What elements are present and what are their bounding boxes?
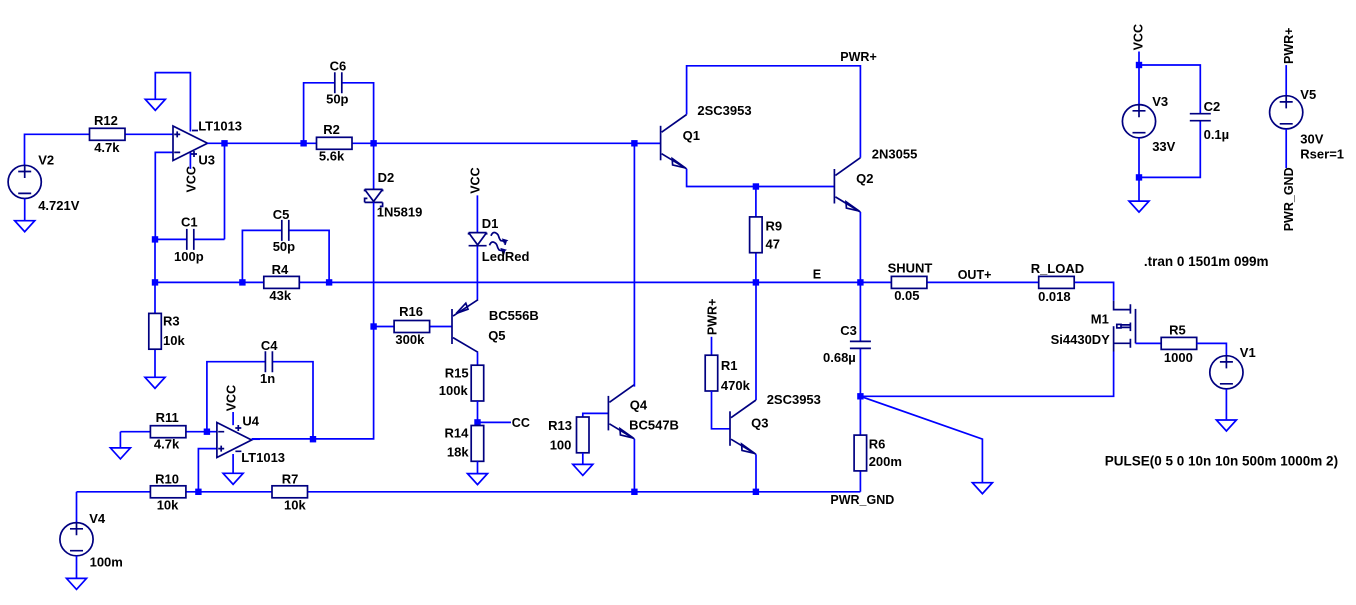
svg-text:18k: 18k [447, 445, 469, 460]
svg-text:R7: R7 [282, 472, 299, 487]
svg-text:PWR_GND: PWR_GND [1282, 167, 1296, 231]
svg-text:100p: 100p [174, 249, 204, 264]
resistor R13 [548, 417, 589, 453]
wire PWR+ to V5 [1285, 65, 1287, 96]
node C5 right junction [326, 279, 332, 285]
svg-text:D2: D2 [378, 170, 395, 185]
node R9 top junction [753, 183, 759, 189]
svg-text:100: 100 [550, 438, 572, 453]
svg-text:R16: R16 [399, 304, 423, 319]
svg-text:PWR+: PWR+ [705, 299, 719, 335]
resistor R5 [1161, 323, 1197, 366]
svg-text:C5: C5 [273, 207, 290, 222]
svg-text:SHUNT: SHUNT [888, 261, 933, 276]
voltage source V5 [1270, 87, 1344, 162]
node Q4 emitter junction [631, 489, 637, 495]
resistor SHUNT [888, 261, 933, 303]
svg-text:PWR_GND: PWR_GND [830, 493, 894, 507]
LED D1 LedRed [469, 216, 530, 264]
wire V3 to ground [1138, 138, 1140, 201]
wire V1 to ground [1225, 389, 1227, 420]
ground V4 [67, 578, 87, 589]
svg-text:R9: R9 [766, 219, 783, 234]
node Q3 emitter junction [753, 489, 759, 495]
svg-text:R_LOAD: R_LOAD [1031, 261, 1084, 276]
wire U4 V- pin to ground [232, 454, 234, 473]
wire Q4 collector to row A [633, 143, 635, 386]
wire V2 to R12 [25, 134, 90, 165]
wire R13 to ground [582, 453, 584, 465]
svg-text:30V: 30V [1300, 132, 1323, 147]
capacitor C5 [273, 207, 295, 254]
svg-text:4.721V: 4.721V [38, 198, 80, 213]
capacitor C1 [174, 214, 204, 263]
resistor R14 [445, 426, 484, 462]
svg-text:U3: U3 [198, 153, 215, 168]
node U4 -in junction [204, 429, 210, 435]
svg-text:V2: V2 [38, 153, 54, 168]
wire U4 output stub [252, 438, 260, 440]
ground R3 [145, 377, 165, 388]
svg-text:2N3055: 2N3055 [872, 146, 918, 161]
svg-text:Si4430DY: Si4430DY [1051, 332, 1111, 347]
node V3 bottom junction [1136, 174, 1142, 180]
svg-text:Q1: Q1 [683, 128, 700, 143]
svg-text:4.7k: 4.7k [94, 140, 120, 155]
svg-text:470k: 470k [721, 378, 751, 393]
wire U4 +in [198, 449, 217, 492]
svg-text:0.018: 0.018 [1038, 289, 1071, 304]
MOSFET M1 Si4430DY [1051, 301, 1136, 352]
svg-text:1n: 1n [260, 371, 275, 386]
wire R5 to V1 [1197, 343, 1227, 355]
svg-text:10k: 10k [284, 498, 306, 513]
svg-text:50p: 50p [326, 92, 348, 107]
svg-text:50p: 50p [273, 239, 295, 254]
ground output loop [972, 483, 992, 494]
wire U3 V+ pin to VCC [189, 152, 191, 169]
svg-text:0.05: 0.05 [894, 288, 919, 303]
svg-text:R14: R14 [445, 426, 470, 441]
wire VCC to D1 to Q5 emitter [476, 195, 478, 299]
wire Q3 collector to E row [755, 282, 757, 400]
wire Q3 emitter to PWR_GND row [755, 454, 757, 492]
svg-text:Q4: Q4 [630, 397, 648, 412]
svg-text:1N5819: 1N5819 [377, 205, 423, 220]
wire D2 to R16 node and U4 output row [252, 202, 374, 439]
node U4 out junction [310, 436, 316, 442]
capacitor C6 [326, 59, 348, 107]
svg-text:V3: V3 [1152, 94, 1168, 109]
svg-text:47: 47 [766, 237, 780, 252]
svg-text:R10: R10 [155, 472, 179, 487]
wire V2 to ground [24, 199, 26, 221]
node E row C3 junction [857, 279, 863, 285]
resistor R1 [705, 355, 750, 393]
svg-text:0.68µ: 0.68µ [823, 350, 856, 365]
svg-text:5.6k: 5.6k [319, 148, 345, 163]
wire R15 to R14 [477, 401, 479, 426]
svg-text:OUT+: OUT+ [958, 268, 992, 282]
svg-text:R2: R2 [323, 122, 340, 137]
voltage source V1 [1210, 345, 1256, 389]
resistor R3 [149, 313, 186, 349]
wire C5 loop [242, 230, 329, 282]
svg-text:VCC: VCC [185, 166, 199, 192]
resistor R11 [150, 410, 186, 452]
svg-text:10k: 10k [157, 498, 179, 513]
transistor Q1 2SC3953 [661, 103, 752, 169]
op-amp U4 LT1013 [217, 414, 285, 466]
svg-text:R4: R4 [272, 262, 289, 277]
wire R1 to Q3 base [712, 391, 731, 429]
wire R11 left to ground [119, 432, 121, 448]
svg-text:R3: R3 [163, 314, 180, 329]
svg-text:Rser=1: Rser=1 [1300, 147, 1344, 162]
wire V5 to PWR_GND [1285, 129, 1287, 168]
ground V1 [1216, 420, 1236, 431]
svg-text:200m: 200m [869, 454, 902, 469]
svg-text:C2: C2 [1204, 99, 1221, 114]
svg-text:C3: C3 [840, 323, 857, 338]
wire to Q1 base [634, 142, 660, 144]
node R2 right junction [370, 140, 376, 146]
ground R14 [468, 474, 488, 485]
svg-text:100m: 100m [90, 555, 123, 570]
wire R14 to ground [477, 461, 479, 473]
svg-text:V4: V4 [89, 511, 106, 526]
svg-text:VCC: VCC [468, 167, 482, 193]
transistor Q2 2N3055 [834, 146, 917, 212]
wire M1 gate to R5 [1136, 342, 1162, 344]
diode D2 1N5819 [365, 170, 423, 220]
wire C6 loop [304, 83, 374, 144]
wire C4 loop [207, 362, 313, 440]
svg-text:LT1013: LT1013 [198, 118, 242, 133]
wire R2 to D2 [373, 143, 375, 189]
svg-text:E: E [813, 268, 821, 282]
node R10 junction [195, 489, 201, 495]
svg-text:V1: V1 [1240, 345, 1256, 360]
svg-text:V5: V5 [1300, 87, 1316, 102]
svg-text:PWR+: PWR+ [840, 50, 876, 64]
svg-text:LedRed: LedRed [482, 249, 530, 264]
svg-text:2SC3953: 2SC3953 [767, 392, 821, 407]
node R2 left junction [300, 140, 306, 146]
svg-text:0.1µ: 0.1µ [1204, 127, 1230, 142]
transistor Q3 2SC3953 [730, 392, 821, 455]
wire C1 to row E [154, 239, 156, 282]
svg-text:33V: 33V [1152, 139, 1175, 154]
wire V4 top [76, 492, 78, 523]
node Q1 base junction [631, 140, 637, 146]
wire R12 to U3 +in [125, 133, 173, 135]
wire Q2 emitter to E row [859, 212, 861, 282]
svg-text:4.7k: 4.7k [154, 437, 180, 452]
wire U3 -in to C1 [155, 152, 173, 239]
node E row R9 junction [753, 279, 759, 285]
resistor R4 [264, 262, 300, 303]
wire VCC to V3 [1138, 52, 1140, 105]
svg-text:VCC: VCC [1132, 24, 1146, 50]
resistor R16 [394, 304, 430, 347]
capacitor C3 [823, 323, 871, 365]
svg-text:M1: M1 [1091, 312, 1109, 327]
wire Q1 emitter to Q2 base [687, 169, 835, 187]
node V3 top junction [1136, 62, 1142, 68]
svg-text:Q3: Q3 [751, 416, 768, 431]
voltage source V3 [1122, 94, 1175, 154]
wire U3 output to Q1 base [208, 142, 661, 144]
svg-text:Q5: Q5 [488, 328, 505, 343]
wire diagonal to ground [860, 396, 982, 482]
wire C3 [859, 282, 861, 396]
wire R9 [755, 187, 757, 283]
svg-text:C6: C6 [330, 59, 347, 74]
svg-text:CC: CC [512, 416, 530, 430]
ground V2 [15, 221, 35, 232]
resistor R12 [90, 113, 126, 155]
resistor R2 [317, 122, 353, 163]
svg-text:PULSE(0 5 0 10n 10n 500m 1000m: PULSE(0 5 0 10n 10n 500m 1000m 2) [1105, 453, 1338, 468]
node C5 left junction [239, 279, 245, 285]
resistor R15 [439, 365, 484, 401]
resistor R_LOAD [1031, 261, 1084, 304]
wire E row to M1 drain [155, 282, 1114, 301]
svg-text:10k: 10k [163, 333, 185, 348]
transistor Q4 BC547B [608, 385, 679, 439]
svg-text:R13: R13 [548, 418, 572, 433]
voltage source V4 [60, 511, 123, 570]
svg-text:U4: U4 [242, 414, 259, 429]
resistor R7 [272, 472, 308, 513]
svg-text:VCC: VCC [224, 385, 238, 411]
node E row left junction [152, 279, 158, 285]
wire U3 V- pin to ground [155, 73, 190, 132]
svg-text:R12: R12 [94, 113, 118, 128]
wire U4 V+ pin [232, 412, 234, 425]
ground R11 [110, 448, 130, 459]
svg-text:LT1013: LT1013 [241, 450, 285, 465]
wire R11 to U4 -in [120, 431, 216, 433]
svg-text:C1: C1 [181, 214, 198, 229]
svg-text:100k: 100k [439, 383, 469, 398]
ground V3 [1129, 201, 1149, 212]
svg-text:R15: R15 [445, 366, 469, 381]
wire PWR+ to R1 [711, 337, 713, 355]
resistor R10 [150, 472, 186, 513]
capacitor C2 [1190, 99, 1229, 142]
svg-text:Q2: Q2 [856, 171, 873, 186]
svg-text:2SC3953: 2SC3953 [697, 103, 751, 118]
transistor Q5 BC556B [452, 300, 539, 353]
wire CC stub [478, 421, 512, 423]
node R16 junction [370, 323, 376, 329]
voltage source V2 [8, 153, 80, 214]
wire Q4 emitter to PWR_GND row [633, 439, 635, 492]
svg-text:43k: 43k [269, 288, 291, 303]
svg-text:PWR+: PWR+ [1282, 28, 1296, 64]
wire PWR_GND row [77, 491, 861, 493]
svg-text:R1: R1 [721, 358, 738, 373]
svg-text:300k: 300k [395, 332, 425, 347]
wire R13 to Q4 base [583, 413, 609, 417]
ground U3 V- [145, 99, 165, 110]
node CC junction [474, 419, 480, 425]
svg-text:.tran 0 1501m 099m: .tran 0 1501m 099m [1144, 254, 1269, 269]
wire Q5 collector to R15 [477, 352, 479, 365]
svg-text:BC556B: BC556B [489, 308, 539, 323]
ground U4 [223, 473, 243, 484]
capacitor C4 [260, 338, 278, 386]
svg-text:R11: R11 [156, 410, 179, 425]
resistor R9 [750, 217, 783, 253]
node U3 out junction [221, 140, 227, 146]
svg-text:R5: R5 [1169, 323, 1186, 338]
wire C2 loop [1139, 65, 1200, 177]
svg-text:BC547B: BC547B [629, 418, 679, 433]
wire R6 [859, 396, 861, 492]
wire PWR+ rail Q1 collector to Q2 collector [687, 66, 861, 158]
node C1 left junction [152, 236, 158, 242]
svg-text:D1: D1 [482, 216, 499, 231]
svg-text:1000: 1000 [1164, 350, 1193, 365]
wire R16 to Q5 base [374, 326, 452, 328]
svg-text:C4: C4 [261, 338, 278, 353]
wire C1 [155, 143, 225, 239]
wire M1 source to loop [860, 352, 1113, 397]
node M1 source loop junction [857, 393, 863, 399]
op-amp U3 LT1013 [173, 118, 242, 167]
svg-text:R6: R6 [869, 436, 886, 451]
wire V4 to ground [76, 556, 78, 579]
ground R13 [573, 464, 593, 475]
wire R3 [154, 282, 156, 377]
resistor R6 [854, 435, 902, 471]
